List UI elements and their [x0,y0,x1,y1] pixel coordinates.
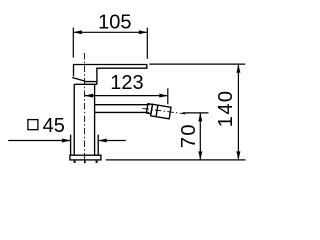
arrow 123 left [85,94,94,98]
dim 105 dimension line [73,31,147,33]
svg-text:45: 45 [43,115,65,137]
arrow 105 right [139,30,148,34]
dim 140 dimension line [237,64,239,160]
body left vertical [73,84,75,155]
dim 105 extension line right [146,28,148,59]
arrow 140 top [236,64,240,73]
aerator body [151,104,171,119]
body top edge [74,83,97,85]
square symbol for 45 [28,120,38,130]
nozzle axis dash-dot [143,108,186,114]
counter surface line [106,159,246,161]
dim 140 top extension line [149,63,245,65]
dimension texts [43,12,237,148]
spout stub bottom line [95,111,149,113]
lever head taper diagonal [72,78,84,82]
dim 45 leader line right [98,140,126,142]
aerator nozzle (tilted) [146,103,171,118]
aerator collar [146,104,152,114]
feet below base plate [74,161,98,163]
base section outer right vertical [97,135,99,156]
dim 123 dimension line [85,95,168,97]
svg-text:70: 70 [178,123,200,148]
centerline of faucet body (dash-dot vertical) [84,53,86,163]
body right vertical [94,84,96,155]
dim 45 leader line left [8,140,70,142]
svg-text:123: 123 [110,72,143,94]
aerator divider line [156,105,158,117]
arrowheads [62,30,240,160]
collar right edge [96,82,98,85]
spout stub top line [95,104,150,106]
base plate [70,155,101,160]
dim 105 extension line left [72,28,74,58]
dim 70 extension line [183,112,209,114]
arrow 105 left [73,30,82,34]
arrow 45 right (points left at body) [98,139,107,143]
dim 70 dimension line [199,113,201,160]
arrow 45 left (points right at body) [62,139,71,143]
svg-text:140: 140 [215,90,237,128]
dim 123 extension line right [167,88,169,104]
arrow 70 top [198,113,202,122]
svg-text:105: 105 [98,12,131,34]
base section outer left vertical [70,135,72,156]
arrow 123 right [159,94,168,98]
arrow 140 bottom [236,151,240,160]
arrow 70 bottom [198,151,202,160]
lever handle outline [74,65,147,82]
